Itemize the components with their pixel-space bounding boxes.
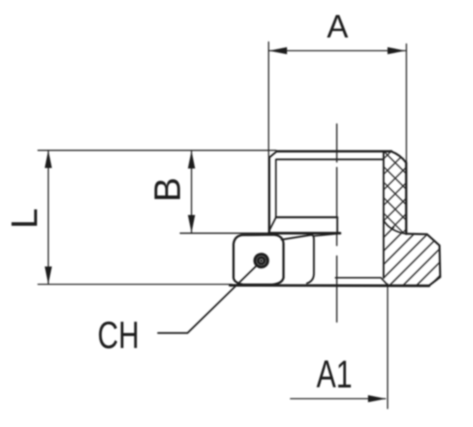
dimension A left arrowhead	[269, 47, 287, 54]
bore step chamfer diagonal	[269, 218, 276, 231]
main bottom edge	[230, 284, 429, 287]
CH leader line	[158, 266, 256, 333]
bore step horizontal	[276, 216, 337, 218]
body bottom edge	[269, 232, 340, 235]
bore step vertical	[336, 217, 338, 233]
thread runout curve into flange	[384, 221, 407, 234]
dimension A1 extension line	[387, 284, 389, 409]
body left inner edge	[275, 159, 277, 217]
thread band left edge	[383, 152, 385, 278]
svg-text:CH: CH	[98, 314, 140, 357]
dimension A left extension line	[268, 42, 270, 156]
thread band crosshatch	[384, 150, 407, 234]
svg-text:A: A	[327, 9, 349, 45]
hex central facet	[234, 235, 284, 285]
body right outer edge	[405, 163, 407, 234]
dimension B bottom arrowhead	[188, 215, 195, 233]
hex socket center dot	[260, 259, 263, 262]
hex socket circle outer	[255, 254, 268, 267]
hex right facet top edge	[282, 235, 312, 240]
body inner top edge	[277, 158, 384, 160]
dimension L line	[47, 151, 49, 285]
dimension B bottom extension line	[180, 232, 270, 234]
svg-text:A1: A1	[317, 354, 353, 397]
svg-text:L: L	[4, 208, 45, 229]
dimension A right arrowhead	[388, 47, 406, 54]
dimension A line	[269, 50, 406, 52]
bottom inner edge	[336, 277, 381, 279]
dimension L bottom extension line	[38, 283, 232, 285]
svg-text:B: B	[147, 177, 188, 202]
centerline upper second segment	[336, 168, 338, 217]
dimension L bottom arrowhead	[45, 267, 52, 285]
flange outline	[388, 234, 440, 286]
body top-right chamfer	[391, 151, 406, 163]
dimension A1 arrowhead	[368, 395, 386, 402]
centerline middle	[336, 233, 338, 246]
dimension B line	[191, 151, 193, 233]
hex top edge to centerline	[314, 234, 339, 236]
centerline lower	[336, 256, 338, 322]
dimension A right extension line	[405, 44, 407, 162]
hex socket circle inner	[258, 257, 264, 263]
hex right facet corner	[307, 235, 314, 283]
dimension B top arrowhead	[188, 151, 195, 169]
body top-left corner chamfer	[269, 151, 276, 157]
dimension L top arrowhead	[45, 150, 52, 168]
body left outer edge	[268, 157, 270, 232]
flange hatch	[384, 222, 441, 286]
body outer top edge	[277, 150, 392, 152]
bottom inner corner diagonal	[381, 278, 388, 286]
dimension L top extension line	[38, 149, 276, 151]
centerline upper	[336, 124, 338, 162]
dimension A1 line	[291, 398, 386, 400]
